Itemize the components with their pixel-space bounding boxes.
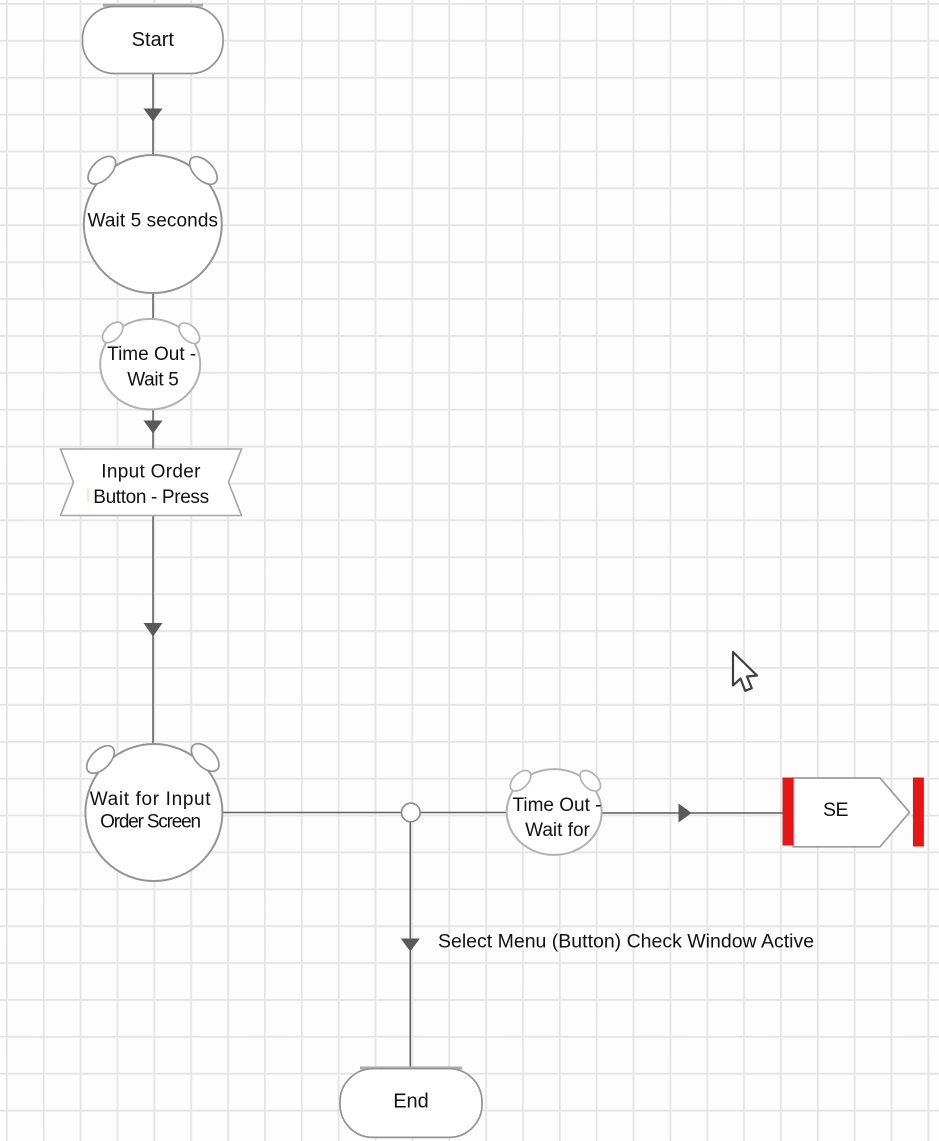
svg-text:Wait 5 seconds: Wait 5 seconds xyxy=(88,211,219,232)
svg-text:Wait for Input: Wait for Input xyxy=(90,789,211,810)
svg-text:SE: SE xyxy=(823,799,849,821)
node Wait for Input Order Screen (timer circle) xyxy=(82,739,224,881)
node Time Out - Wait 5 (timer circle) xyxy=(99,318,204,409)
junction node xyxy=(402,803,421,822)
wire Wait 5 seconds to Time Out - Wait 5 xyxy=(152,292,154,322)
wire Input Order Button - Press to Wait for Input Order Screen xyxy=(144,516,163,746)
wire Wait for Input Order Screen to junction xyxy=(221,812,403,814)
node Time Out - Wait for (timer circle) xyxy=(506,767,604,855)
svg-text:Wait 5: Wait 5 xyxy=(127,370,178,391)
node End xyxy=(340,1068,482,1138)
svg-text:Select Menu (Button) Check Win: Select Menu (Button) Check Window Active xyxy=(438,931,814,953)
wire junction to Time Out - Wait for xyxy=(418,812,510,814)
svg-text:End: End xyxy=(393,1091,429,1113)
wire Start to Wait 5 seconds xyxy=(144,72,163,156)
svg-text:Order Screen: Order Screen xyxy=(100,812,200,833)
node Start xyxy=(83,5,224,74)
svg-text:Time Out -: Time Out - xyxy=(107,344,196,365)
svg-text:Input Order: Input Order xyxy=(101,462,201,483)
svg-text:Button - Press: Button - Press xyxy=(93,487,208,508)
wire Time Out - Wait for to SE xyxy=(599,804,783,823)
node Wait 5 seconds (timer circle) xyxy=(83,151,222,293)
svg-text:Start: Start xyxy=(132,29,175,51)
wire junction to End xyxy=(401,820,420,1069)
svg-text:Wait for: Wait for xyxy=(525,820,590,841)
wire Time Out - Wait 5 to Input Order Button - Press xyxy=(144,408,163,449)
mouse cursor xyxy=(733,652,757,691)
node Input Order Button - Press (banner) xyxy=(61,449,242,516)
node SE (pentagon with red bars) xyxy=(783,778,924,847)
svg-text:Time Out -: Time Out - xyxy=(512,795,601,816)
